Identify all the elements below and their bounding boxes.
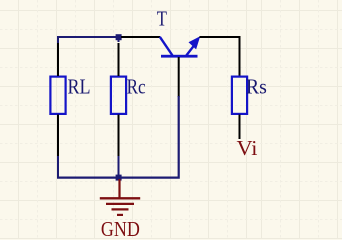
resistor Rs — [232, 77, 247, 114]
pin: RL top lead (black) — [57, 43, 59, 76]
wire: RL bottom to bottom rail — [57, 156, 59, 179]
ground GND — [100, 179, 140, 215]
transistor collector diagonal — [160, 37, 173, 56]
pin: Rc top lead (black) — [118, 43, 120, 76]
pin: transistor collector lead (black horizontal) — [121, 36, 160, 38]
ground bar 2 — [106, 203, 134, 205]
resistor Rc — [111, 77, 126, 114]
svg-text:Vi: Vi — [237, 136, 258, 160]
ground bar 3 — [112, 208, 129, 210]
transistor T — [160, 36, 200, 57]
transistor base bar — [161, 55, 198, 58]
pin: Rc bottom lead (black) — [118, 115, 120, 158]
wire: Rc bottom to bottom rail junction — [118, 156, 120, 179]
svg-text:GND: GND — [101, 217, 140, 239]
wire: left vertical stub below top-left corner — [57, 36, 59, 43]
wire: base down to bottom-right corner and bottom rail — [57, 96, 179, 178]
node junction at top (118.5,37) — [116, 34, 122, 40]
resistor RL — [50, 77, 65, 114]
svg-text:RL: RL — [68, 74, 91, 98]
transistor emitter diagonal — [186, 46, 193, 55]
wire: right vertical down to Rs (black) — [239, 36, 241, 77]
svg-text:Rc: Rc — [127, 74, 146, 98]
wire: top horizontal net from left corner to junction — [57, 36, 120, 38]
transistor emitter arrowhead — [189, 36, 201, 49]
node junction at bottom rail (118.5,177.5) — [116, 175, 122, 181]
ground bar 4 — [117, 214, 123, 216]
pin: transistor base lead (black vertical) — [178, 57, 180, 97]
ground stem — [118, 179, 120, 198]
wire: Rc top stub below junction — [118, 37, 120, 42]
ground bar 1 — [100, 197, 140, 199]
pin: Rs bottom lead (black) — [239, 115, 241, 140]
pin: transistor emitter lead (black horizontal to right) — [200, 36, 240, 38]
svg-text:Rs: Rs — [246, 74, 267, 98]
pin: RL bottom lead (black) — [57, 115, 59, 158]
svg-text:T: T — [157, 7, 167, 31]
